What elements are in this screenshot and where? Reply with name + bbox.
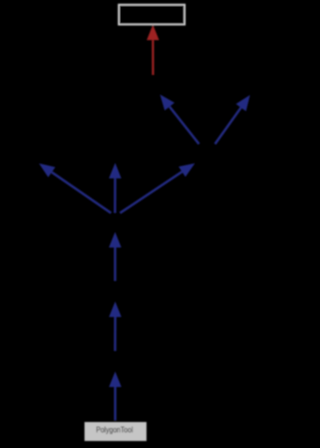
svg-text:PolygonTool: PolygonTool: [96, 424, 133, 434]
